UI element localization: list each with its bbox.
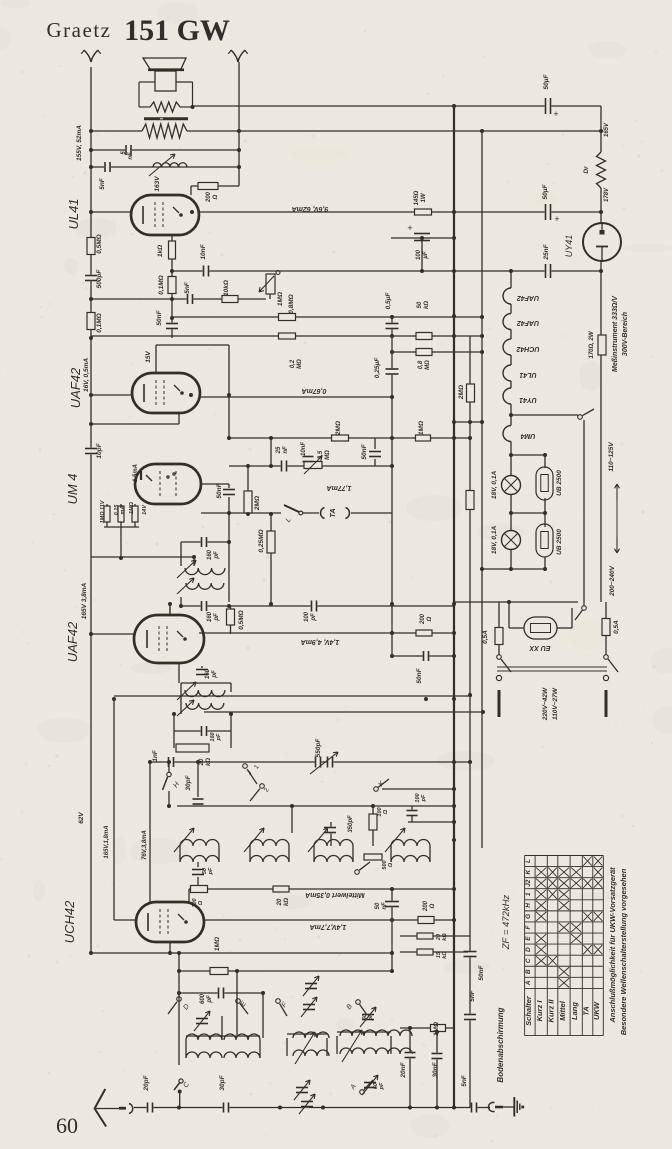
svg-text:10nF: 10nF <box>301 442 307 456</box>
svg-text:J2: J2 <box>525 879 532 887</box>
svg-text:1,5: 1,5 <box>318 450 324 459</box>
svg-text:kΩ: kΩ <box>424 301 430 309</box>
svg-text:UY41: UY41 <box>564 235 574 258</box>
svg-text:nF: nF <box>128 152 134 160</box>
svg-text:1,77mA: 1,77mA <box>327 484 352 491</box>
svg-text:50µF: 50µF <box>542 184 549 200</box>
svg-text:TA: TA <box>328 508 337 517</box>
svg-text:1nF: 1nF <box>152 749 159 762</box>
svg-text:Ω: Ω <box>213 194 219 200</box>
svg-text:UAF42: UAF42 <box>65 621 80 662</box>
svg-text:pF: pF <box>212 670 218 679</box>
svg-text:Graetz: Graetz <box>47 18 112 42</box>
svg-text:0,8MΩ: 0,8MΩ <box>288 294 295 314</box>
svg-text:100: 100 <box>416 249 422 260</box>
svg-text:2MΩ: 2MΩ <box>335 421 342 436</box>
svg-text:MΩ: MΩ <box>325 450 331 460</box>
svg-text:220V~42W: 220V~42W <box>542 687 549 721</box>
svg-text:0,1MΩ: 0,1MΩ <box>96 313 103 333</box>
svg-text:UAF42: UAF42 <box>68 367 83 408</box>
svg-text:Anschlußmöglichkeit für UKW-Vo: Anschlußmöglichkeit für UKW-Vorsatzgerät <box>608 867 617 1024</box>
svg-text:pF: pF <box>216 733 222 741</box>
svg-text:300V-Bereich: 300V-Bereich <box>622 312 629 356</box>
svg-text:Schalter: Schalter <box>524 995 533 1026</box>
svg-text:UB 2500: UB 2500 <box>556 529 563 555</box>
svg-text:Kurz II: Kurz II <box>547 999 556 1023</box>
svg-text:Ω: Ω <box>427 616 433 622</box>
svg-text:pF: pF <box>214 613 220 622</box>
svg-text:50µF: 50µF <box>543 74 550 90</box>
svg-text:1,4V,7,7mA: 1,4V,7,7mA <box>310 923 347 930</box>
svg-text:1MΩ: 1MΩ <box>214 937 221 951</box>
svg-text:18V, 0,1A: 18V, 0,1A <box>491 471 498 500</box>
svg-text:mA: mA <box>120 506 126 515</box>
svg-text:Ω: Ω <box>430 903 436 909</box>
svg-text:200~240V: 200~240V <box>609 565 616 596</box>
svg-text:0,67mA: 0,67mA <box>302 387 327 394</box>
svg-text:145Ω: 145Ω <box>414 190 420 205</box>
svg-text:25: 25 <box>276 446 282 454</box>
svg-text:kΩ: kΩ <box>206 758 212 766</box>
svg-text:UKW: UKW <box>592 1001 601 1020</box>
svg-text:1W: 1W <box>421 192 427 202</box>
svg-text:160: 160 <box>207 611 213 622</box>
svg-text:Bodenabschirmung: Bodenabschirmung <box>496 1007 505 1082</box>
svg-text:UL41: UL41 <box>66 198 81 229</box>
svg-text:5nF: 5nF <box>184 281 191 294</box>
svg-text:10kΩ: 10kΩ <box>223 280 230 296</box>
svg-text:155V, 52mA: 155V, 52mA <box>76 125 83 161</box>
svg-text:18V, 0,1A: 18V, 0,1A <box>491 526 498 555</box>
svg-text:C: C <box>525 958 532 963</box>
svg-text:UCH42: UCH42 <box>516 345 539 352</box>
svg-text:1MΩ: 1MΩ <box>418 421 425 435</box>
svg-text:µF: µF <box>423 251 429 259</box>
svg-text:kΩ: kΩ <box>442 951 448 959</box>
svg-text:9,6V, 62mA: 9,6V, 62mA <box>292 205 329 212</box>
svg-text:0,5µF: 0,5µF <box>385 292 392 310</box>
svg-text:0,5A: 0,5A <box>482 630 489 644</box>
svg-text:pF: pF <box>311 613 317 622</box>
svg-text:B: B <box>525 969 532 974</box>
svg-text:L: L <box>525 859 532 863</box>
svg-text:178V: 178V <box>604 187 610 202</box>
svg-text:EU XX: EU XX <box>528 644 550 651</box>
svg-text:Ω: Ω <box>383 809 389 815</box>
svg-text:G: G <box>525 914 532 919</box>
svg-text:pF: pF <box>368 1013 374 1021</box>
svg-text:165V: 165V <box>604 122 610 137</box>
svg-text:20: 20 <box>277 898 283 906</box>
svg-text:50nF: 50nF <box>361 443 368 459</box>
svg-text:350pF: 350pF <box>348 815 354 833</box>
svg-text:0,2: 0,2 <box>290 359 296 368</box>
svg-text:20nF: 20nF <box>400 1061 407 1078</box>
svg-text:2MΩ: 2MΩ <box>458 385 465 400</box>
svg-text:UM4: UM4 <box>521 432 536 439</box>
svg-text:1kΩ: 1kΩ <box>157 245 164 257</box>
svg-text:60: 60 <box>56 1113 78 1138</box>
svg-text:UAF42: UAF42 <box>517 294 539 301</box>
svg-text:50: 50 <box>375 902 381 909</box>
svg-text:5nF: 5nF <box>469 989 476 1002</box>
svg-text:500pF: 500pF <box>96 269 103 289</box>
svg-text:0,8: 0,8 <box>418 360 424 369</box>
svg-text:0,5MΩ: 0,5MΩ <box>238 610 245 630</box>
svg-text:H: H <box>525 903 532 908</box>
svg-text:151 GW: 151 GW <box>124 14 230 47</box>
svg-text:1,4V, 4,9mA: 1,4V, 4,9mA <box>301 638 340 645</box>
svg-text:550pF: 550pF <box>315 738 322 758</box>
svg-text:nF: nF <box>283 446 289 454</box>
svg-text:Kurz I: Kurz I <box>535 1000 544 1022</box>
svg-text:1MΩ: 1MΩ <box>129 501 135 514</box>
svg-text:160: 160 <box>207 549 213 560</box>
svg-text:30nF: 30nF <box>432 1061 439 1077</box>
svg-text:E: E <box>525 936 532 941</box>
svg-text:kΩ: kΩ <box>442 933 448 941</box>
svg-text:100: 100 <box>304 611 310 622</box>
svg-text:pF: pF <box>379 1082 385 1090</box>
svg-text:0,25MΩ: 0,25MΩ <box>258 529 265 552</box>
svg-text:Lang: Lang <box>570 1002 579 1020</box>
svg-text:A: A <box>525 980 532 986</box>
svg-text:UB 2500: UB 2500 <box>556 470 563 496</box>
svg-text:1MΩ: 1MΩ <box>433 1022 440 1036</box>
svg-text:20: 20 <box>199 758 205 766</box>
svg-text:50nF: 50nF <box>156 309 163 325</box>
svg-text:1,5mA: 1,5mA <box>133 464 139 482</box>
svg-text:110~125V: 110~125V <box>608 442 615 472</box>
svg-text:+: + <box>554 214 559 224</box>
svg-text:UAF42: UAF42 <box>517 319 539 326</box>
svg-text:50nF: 50nF <box>416 667 423 683</box>
svg-text:20pF: 20pF <box>143 1074 150 1091</box>
svg-text:1: 1 <box>525 892 532 896</box>
svg-text:UM 4: UM 4 <box>65 473 80 504</box>
svg-text:Mittelwert 0,35mA: Mittelwert 0,35mA <box>305 891 365 898</box>
svg-text:15V: 15V <box>145 351 152 363</box>
svg-text:0,1MΩ: 0,1MΩ <box>158 275 165 295</box>
svg-text:200: 200 <box>420 613 426 625</box>
svg-text:pF: pF <box>207 995 213 1004</box>
svg-text:Meßinstrument 333Ω/V: Meßinstrument 333Ω/V <box>612 295 619 372</box>
svg-text:UCH42: UCH42 <box>62 900 77 943</box>
svg-text:UY41: UY41 <box>519 396 537 403</box>
svg-text:76V,3,8mA: 76V,3,8mA <box>142 830 148 860</box>
svg-text:200: 200 <box>206 191 212 203</box>
svg-text:Mittel: Mittel <box>558 1000 567 1020</box>
svg-text:5nF: 5nF <box>461 1074 468 1087</box>
svg-text:1MΩ: 1MΩ <box>277 292 284 306</box>
svg-text:nF: nF <box>382 902 388 910</box>
svg-text:+: + <box>407 223 412 233</box>
svg-text:1MΩ 11V: 1MΩ 11V <box>100 499 106 523</box>
svg-text:Dr: Dr <box>583 166 590 174</box>
svg-text:165V,1,8mA: 165V,1,8mA <box>104 825 110 858</box>
svg-text:TA: TA <box>582 1006 591 1015</box>
svg-text:170Ω, 2W: 170Ω, 2W <box>589 330 595 358</box>
svg-text:+: + <box>553 109 558 119</box>
svg-text:pF: pF <box>421 794 427 802</box>
svg-text:pF: pF <box>208 867 214 875</box>
svg-text:MΩ: MΩ <box>297 359 303 369</box>
svg-text:30pF: 30pF <box>185 774 192 790</box>
svg-text:5nF: 5nF <box>99 177 106 190</box>
svg-text:25nF: 25nF <box>543 243 550 260</box>
svg-text:200: 200 <box>423 900 429 912</box>
svg-text:163V: 163V <box>154 176 161 192</box>
svg-text:Besondere Wellenschalterstellu: Besondere Wellenschalterstellung vorgese… <box>619 868 628 1035</box>
svg-text:165V 3,8mA: 165V 3,8mA <box>81 582 88 619</box>
svg-text:Ω: Ω <box>198 900 204 906</box>
svg-text:50nF: 50nF <box>216 482 223 498</box>
svg-text:10nF: 10nF <box>200 243 207 259</box>
svg-text:16V, 0,5mA: 16V, 0,5mA <box>83 358 90 392</box>
svg-text:50: 50 <box>417 301 423 308</box>
svg-text:ZF = 472kHz: ZF = 472kHz <box>501 895 512 951</box>
svg-text:30pF: 30pF <box>219 1074 226 1090</box>
svg-text:10pF: 10pF <box>96 442 103 458</box>
svg-text:0,25µF: 0,25µF <box>374 357 381 378</box>
svg-text:62V: 62V <box>78 812 85 824</box>
svg-text:110V~27W: 110V~27W <box>552 687 559 720</box>
svg-text:14V: 14V <box>142 504 148 515</box>
svg-text:Ω: Ω <box>388 862 394 868</box>
svg-text:50nF: 50nF <box>478 964 485 980</box>
svg-text:0,5A: 0,5A <box>613 620 620 634</box>
svg-text:2MΩ: 2MΩ <box>254 496 261 511</box>
svg-text:0,5MΩ: 0,5MΩ <box>96 234 103 254</box>
svg-text:600: 600 <box>200 993 206 1004</box>
svg-text:D: D <box>525 947 532 952</box>
svg-text:MΩ: MΩ <box>425 360 431 370</box>
svg-text:pF: pF <box>214 551 220 560</box>
svg-text:UL41: UL41 <box>519 371 536 378</box>
svg-text:kΩ: kΩ <box>284 898 290 906</box>
svg-text:160: 160 <box>205 668 211 679</box>
